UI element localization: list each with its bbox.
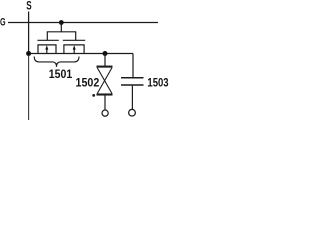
wire 1502 drop	[104, 54, 106, 67]
wire bottom rail	[29, 53, 133, 55]
terminal circle under 1503	[129, 109, 136, 116]
wire gate stub down from G	[60, 23, 62, 32]
wire capacitor drop	[132, 54, 134, 78]
wire G horizontal	[8, 22, 158, 24]
svg-text:1502: 1502	[76, 76, 100, 90]
wire 1502 lower stub	[104, 95, 106, 110]
scan speck near 1502 bottom bar	[92, 94, 95, 97]
node junction rail/1502	[103, 51, 108, 56]
wire capacitor lower stub	[131, 86, 133, 110]
transistor 1501 left	[37, 40, 58, 53]
brace under 1501	[34, 57, 79, 67]
node junction S/rail	[26, 51, 31, 56]
terminal circle under 1502	[102, 110, 108, 116]
svg-text:S: S	[26, 1, 32, 13]
svg-text:G: G	[0, 16, 6, 28]
capacitor 1503	[121, 78, 144, 85]
wire S vertical lower	[28, 54, 30, 121]
node junction on G line	[59, 20, 64, 25]
wire gate bus	[47, 32, 75, 41]
diac 1502 symbol	[97, 67, 113, 95]
wire S vertical upper	[28, 12, 30, 54]
transistor 1501 right	[63, 40, 85, 53]
svg-text:1503: 1503	[147, 76, 169, 90]
svg-text:1501: 1501	[49, 67, 72, 81]
